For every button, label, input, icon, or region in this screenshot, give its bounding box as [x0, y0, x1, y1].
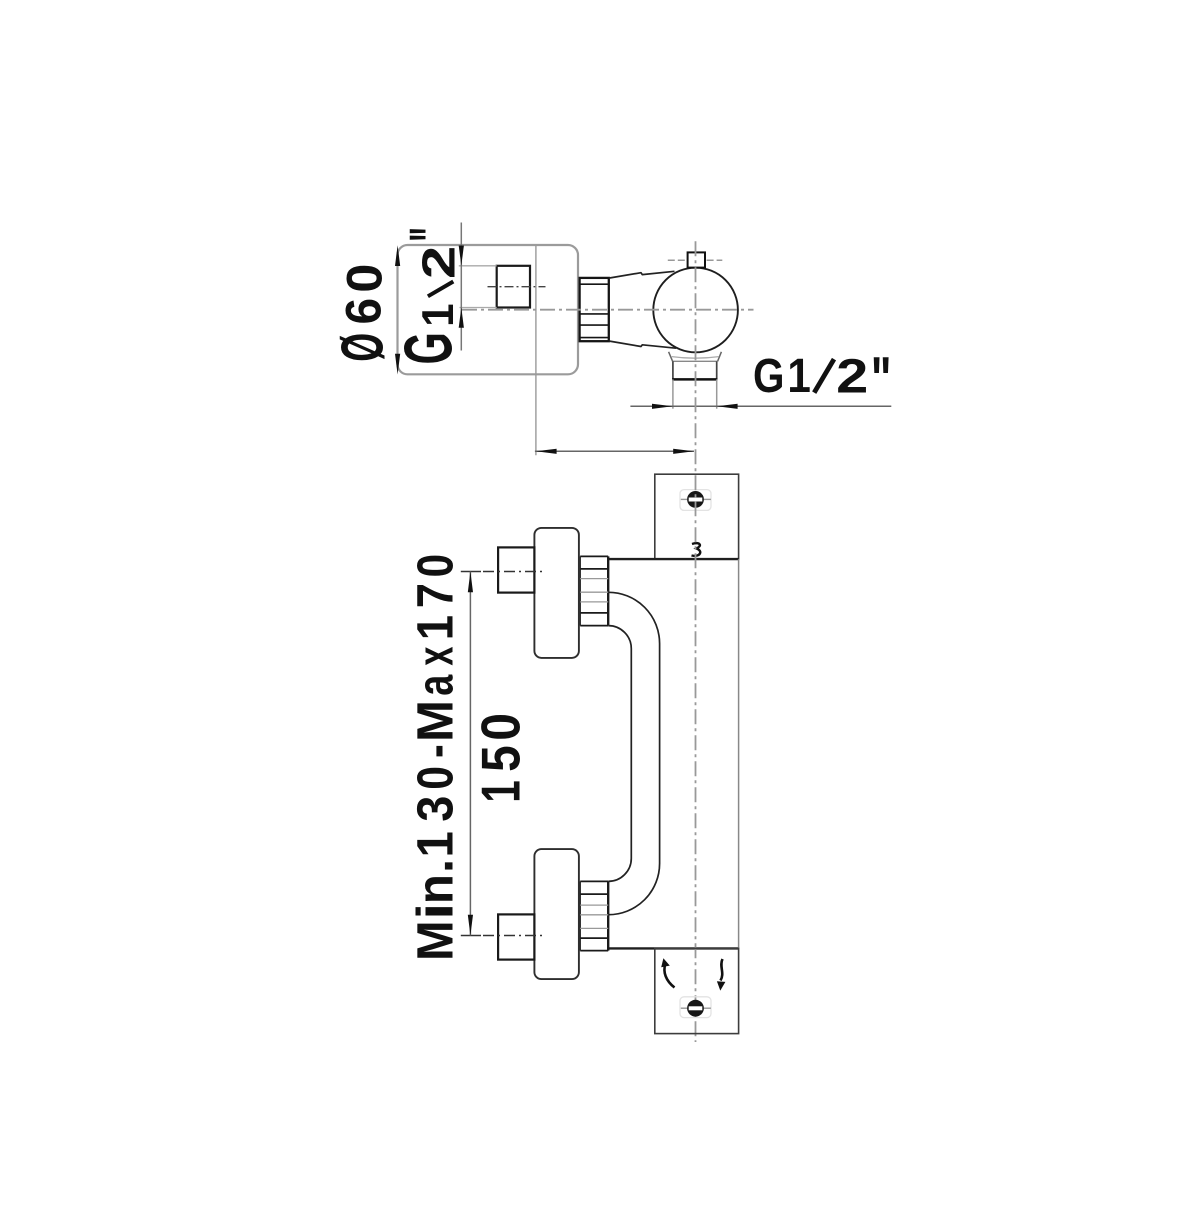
top knob (front view): [534, 528, 579, 658]
svg-text:0: 0: [406, 766, 463, 790]
svg-text:Ø: Ø: [328, 333, 395, 362]
svg-text:0: 0: [470, 713, 532, 741]
screw top: [681, 491, 711, 508]
faint plug outline bottom: [680, 997, 711, 1018]
svg-text:M: M: [406, 700, 463, 742]
svg-text:x: x: [408, 647, 464, 666]
bottom wall bracket: [655, 948, 739, 1033]
svg-text:.: .: [407, 859, 464, 873]
svg-text:1: 1: [470, 780, 532, 802]
stub centerlines: [461, 572, 543, 936]
bottom knurl: [580, 881, 608, 950]
inlet square centerline: [488, 286, 546, 288]
svg-text:1: 1: [407, 615, 464, 640]
bottom inlet stub: [498, 914, 534, 959]
top inlet stub: [498, 547, 534, 592]
svg-text:0: 0: [337, 264, 393, 293]
dimension line outlet pipe G1/2: [630, 404, 891, 409]
stub centerline dashes: [668, 259, 723, 261]
svg-text:7: 7: [407, 583, 464, 608]
svg-text:1: 1: [787, 348, 810, 402]
label Ø60 (rotated): [328, 264, 395, 362]
vertical dimension 150: [468, 572, 473, 936]
svg-text:i: i: [406, 903, 463, 920]
body bar top edge: [608, 558, 738, 560]
faint plug outline top: [680, 490, 711, 511]
body bar right edge: [738, 559, 740, 948]
svg-text:5: 5: [469, 745, 531, 772]
body bar bottom edge: [608, 947, 738, 949]
small squiggle mark top bracket: [692, 543, 701, 556]
svg-text:2: 2: [836, 350, 868, 404]
top wall bracket: [655, 474, 739, 559]
inlet square (wall connection, side view): [497, 266, 530, 308]
svg-text:-: -: [406, 744, 463, 758]
bottom knob (front view): [534, 849, 579, 979]
outlet pipe: [672, 361, 717, 408]
screw bottom: [681, 1000, 711, 1017]
handle tube inner edge: [608, 626, 631, 882]
mixer body side-view rounded rect: [398, 245, 579, 374]
extension lines of inlet square: [459, 266, 497, 308]
label G1/2" (horizontal): [753, 345, 891, 415]
cone adapter: [609, 271, 676, 348]
svg-text:6: 6: [336, 298, 391, 325]
svg-text:n: n: [407, 874, 464, 904]
collar under circle: [669, 352, 722, 362]
stub square on top of circle: [688, 252, 705, 267]
bottom dimension line of side view: [535, 449, 694, 454]
label 150 (rotated): [469, 713, 532, 803]
svg-text:1: 1: [407, 831, 464, 857]
dimension arrows Ø60: [395, 245, 400, 374]
hex nut side view: [580, 278, 609, 341]
svg-text:2: 2: [413, 246, 465, 279]
control knob circle (side view): [653, 268, 738, 353]
svg-text:": ": [397, 227, 467, 242]
label Min.130-Max170 (rotated): [406, 554, 464, 961]
vertical extension line (body center): [535, 245, 537, 455]
svg-text:G: G: [753, 350, 784, 403]
handle tube outer edge: [608, 592, 659, 914]
svg-text:": ": [871, 345, 892, 415]
svg-text:3: 3: [408, 796, 464, 822]
cold arrow mark (right squiggle): [717, 959, 726, 991]
horizontal centerline top drawing: [462, 309, 754, 311]
svg-text:G: G: [390, 332, 466, 364]
top knurl: [580, 556, 608, 625]
svg-text:M: M: [407, 920, 464, 961]
svg-text:1: 1: [414, 303, 463, 326]
main vertical centerline: [695, 241, 697, 1042]
hot arrow mark (left squiggle): [661, 958, 674, 987]
svg-text:a: a: [406, 674, 464, 696]
dimension G1/2 vertical (inlet): [459, 223, 464, 351]
svg-text:0: 0: [407, 554, 464, 578]
label G1/2" (rotated): [390, 227, 467, 364]
